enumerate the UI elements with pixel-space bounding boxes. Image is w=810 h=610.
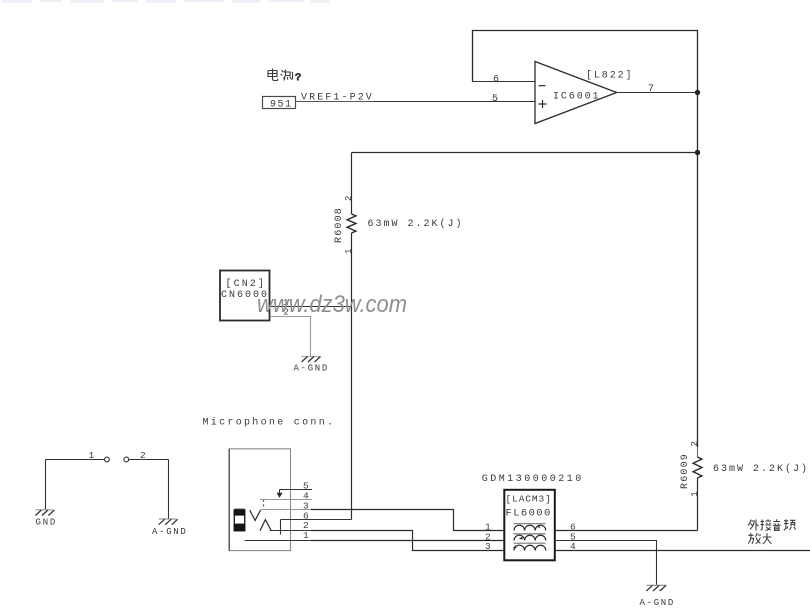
wire horizontal to R6008 bbox=[352, 152, 698, 154]
svg-text:[LACM3]: [LACM3] bbox=[506, 494, 552, 505]
wire mic1 to FL pin2 bbox=[311, 540, 504, 542]
mic pin 5 line bbox=[280, 489, 313, 491]
svg-text:951: 951 bbox=[270, 100, 293, 111]
mic pin 1 line bbox=[245, 540, 312, 542]
mic pin 6 line bbox=[281, 519, 352, 521]
ground A-GND under FL6000 bbox=[640, 585, 676, 608]
wire CN6000 pin2 to ground bbox=[270, 317, 311, 357]
svg-text:Microphone conn.: Microphone conn. bbox=[203, 417, 336, 429]
svg-text:2: 2 bbox=[690, 441, 700, 446]
connector CN6000 bbox=[220, 271, 270, 321]
coil row 2 bbox=[514, 534, 546, 541]
svg-text:5: 5 bbox=[492, 94, 498, 105]
resistor R6008 bbox=[334, 153, 356, 520]
arrow pin5 bbox=[277, 490, 282, 497]
wire FL pin5 to ground bbox=[555, 541, 657, 585]
connector box 951 bbox=[263, 97, 296, 111]
svg-text:GDM130000210: GDM130000210 bbox=[482, 474, 584, 485]
svg-text:GND: GND bbox=[36, 518, 58, 528]
coil row 1 bbox=[514, 524, 546, 531]
svg-text:www.dz3w.com: www.dz3w.com bbox=[257, 291, 407, 318]
svg-text:A-GND: A-GND bbox=[152, 527, 188, 537]
wire FL pin6 to R6009 bbox=[555, 530, 698, 532]
svg-text:[CN2]: [CN2] bbox=[226, 278, 267, 290]
mic pin 3 line bbox=[261, 509, 312, 511]
switch contact circles bbox=[105, 457, 110, 462]
svg-text:3: 3 bbox=[485, 541, 491, 552]
wire mic2 to FL pin3 bbox=[311, 531, 504, 551]
wire right vertical bus bbox=[697, 93, 699, 448]
mic pin 4 line bbox=[260, 499, 312, 501]
op-amp IC6001 bbox=[535, 62, 633, 124]
svg-text:A-GND: A-GND bbox=[294, 364, 330, 374]
svg-text:R6009: R6009 bbox=[680, 453, 691, 489]
mic pin 2 line bbox=[270, 530, 313, 532]
dashed stub bbox=[263, 500, 265, 508]
svg-text:2: 2 bbox=[344, 196, 354, 201]
svg-text:6: 6 bbox=[493, 75, 499, 86]
jack tip contact V bbox=[250, 510, 261, 521]
wire 951 to op-amp pin5 bbox=[296, 101, 374, 103]
microphone connector box bbox=[229, 449, 290, 551]
wire to A-GND bbox=[168, 460, 170, 519]
jack sleeve element bbox=[234, 509, 246, 531]
svg-text:63mW 2.2K(J): 63mW 2.2K(J) bbox=[368, 218, 464, 230]
wire FL pin4 to edge bbox=[555, 550, 810, 552]
svg-text:1: 1 bbox=[690, 491, 700, 496]
wire mic3 to FL pin1 bbox=[311, 510, 504, 531]
cropped header text remnant bbox=[2, 0, 330, 3]
switch wires bbox=[46, 459, 169, 461]
resistor R6009 bbox=[680, 441, 702, 530]
svg-text:?: ? bbox=[295, 72, 301, 84]
wire op-amp pin6 input bbox=[473, 81, 536, 83]
mic switch stub bbox=[280, 520, 282, 535]
svg-text:IC6001: IC6001 bbox=[553, 92, 600, 103]
ground A-GND left bbox=[152, 519, 188, 537]
label 外接音频 bbox=[748, 519, 796, 530]
ground A-GND under CN6000 bbox=[294, 357, 330, 374]
junction dot output node bbox=[695, 90, 700, 95]
wire op-amp output bbox=[617, 92, 698, 94]
wire CN6000 pin1 to bus bbox=[270, 306, 352, 308]
wire to GND bbox=[45, 460, 47, 510]
svg-text:7: 7 bbox=[648, 84, 654, 95]
svg-text:1: 1 bbox=[303, 530, 309, 541]
svg-text:R6008: R6008 bbox=[334, 207, 345, 243]
filter FL6000 bbox=[504, 490, 555, 561]
svg-text:A-GND: A-GND bbox=[640, 598, 676, 608]
svg-text:FL6000: FL6000 bbox=[506, 508, 552, 520]
svg-text:63mW 2.2K(J): 63mW 2.2K(J) bbox=[713, 463, 809, 475]
jack ring contact caret bbox=[260, 520, 271, 531]
wire feedback loop bbox=[473, 31, 698, 93]
label 电源? bbox=[268, 69, 301, 85]
label 放大 bbox=[748, 533, 771, 544]
coil row 3 bbox=[513, 543, 546, 550]
svg-text:[L822]: [L822] bbox=[586, 70, 633, 82]
ground GND bbox=[35, 510, 57, 528]
svg-text:1: 1 bbox=[344, 249, 354, 254]
junction dot feedback node bbox=[695, 150, 700, 155]
